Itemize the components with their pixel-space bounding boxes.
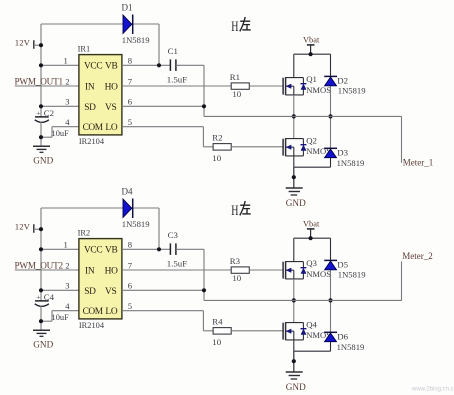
wire VS row: [122, 105, 204, 107]
svg-text:VCC: VCC: [84, 246, 102, 256]
svg-text:3: 3: [65, 281, 69, 291]
svg-text:D1: D1: [122, 3, 133, 13]
svg-text:4: 4: [65, 301, 70, 311]
svg-text:VS: VS: [105, 103, 116, 113]
svg-text:4: 4: [65, 117, 70, 127]
svg-text:1N5819: 1N5819: [122, 35, 150, 45]
svg-text:R2: R2: [212, 133, 222, 143]
svg-text:PWM_OUT1: PWM_OUT1: [15, 77, 64, 87]
svg-text:R4: R4: [212, 317, 223, 327]
transistor Q2 NMOS: [283, 135, 331, 156]
node Vbat junction: [309, 52, 313, 56]
wire VB rail drop: [158, 24, 160, 65]
svg-text:Meter_2: Meter_2: [402, 251, 433, 261]
capacitor C3 1.5uF: [167, 230, 187, 269]
resistor R3 10: [230, 256, 250, 283]
wire source bottom bar: [294, 167, 331, 188]
svg-text:6: 6: [128, 97, 133, 107]
wire LO row: [122, 311, 213, 331]
wire diode D6 branch: [330, 300, 332, 351]
wire cap to ground: [40, 306, 42, 331]
net label Meter_2: [402, 251, 433, 261]
ground GND bridge: [286, 372, 306, 392]
pin 6: [128, 281, 133, 291]
wire VB row: [122, 248, 170, 250]
wire HO row: [122, 85, 231, 87]
diode D4 1N5819: [122, 187, 150, 230]
svg-text:IR2104: IR2104: [79, 321, 105, 330]
wire Q1 drain: [293, 54, 295, 77]
wire top rail to diode D4: [41, 208, 159, 229]
pin 4: [65, 117, 70, 127]
svg-text:Q2: Q2: [306, 135, 317, 145]
wire Q3 source: [293, 279, 295, 301]
text H-left title: [231, 201, 251, 219]
node Vbat junction: [309, 236, 313, 240]
net label Meter_1: [403, 158, 434, 168]
node COM/cap junction: [39, 319, 43, 323]
svg-text:GND: GND: [286, 198, 306, 208]
svg-text:12V: 12V: [15, 222, 31, 232]
svg-text:2: 2: [65, 260, 69, 270]
pin 1: [64, 56, 68, 66]
wire diode D2 branch: [330, 54, 332, 116]
svg-text:LO: LO: [105, 307, 117, 317]
wire Q4 drain: [293, 300, 295, 322]
pin 1: [64, 240, 68, 250]
svg-text:IR2: IR2: [78, 228, 91, 237]
node 12V stub junction: [39, 227, 43, 231]
svg-text:10: 10: [232, 89, 241, 99]
svg-text:D2: D2: [337, 76, 348, 86]
pin 5: [128, 301, 132, 311]
net label PWM_OUT2: [15, 261, 64, 271]
svg-text:12V: 12V: [15, 38, 31, 48]
wire 12V rail vertical: [40, 45, 42, 116]
svg-text:PWM_OUT2: PWM_OUT2: [15, 261, 64, 271]
svg-text:COM: COM: [83, 123, 104, 133]
net label PWM_OUT1: [15, 77, 64, 87]
wire source bottom bar: [294, 351, 331, 372]
ground GND left: [33, 330, 54, 349]
wire VCC row: [41, 64, 79, 66]
svg-text:GND: GND: [286, 382, 306, 392]
svg-text:VB: VB: [105, 246, 117, 256]
svg-text:Q1: Q1: [306, 74, 317, 84]
svg-text:2: 2: [65, 76, 69, 86]
node VB/diode junction: [157, 63, 161, 67]
capacitor C4 10uF polarized: [35, 292, 69, 322]
pin 7: [128, 76, 133, 86]
ground GND bridge: [286, 188, 306, 208]
wire LO row: [122, 127, 213, 147]
wire HO to gate: [249, 269, 283, 271]
node VCC junction: [39, 247, 43, 251]
wire cap to ground: [40, 122, 42, 147]
node ground junction: [292, 175, 296, 179]
power port Vbat: [303, 35, 320, 54]
svg-text:6: 6: [128, 281, 133, 291]
wire SD row: [41, 105, 79, 107]
node half-bridge midpoint left: [292, 298, 296, 302]
svg-text:H: H: [231, 203, 238, 219]
wire diode D3 branch: [330, 116, 332, 167]
svg-text:D4: D4: [122, 187, 133, 197]
svg-text:+: +: [36, 109, 40, 118]
wire Q3 drain: [293, 238, 295, 261]
IC IR1 IR2104: [78, 44, 122, 146]
pin 3: [65, 281, 69, 291]
pin 8: [128, 240, 132, 250]
svg-text:1N5819: 1N5819: [337, 158, 365, 168]
svg-text:VS: VS: [105, 287, 116, 297]
wire Q2 drain: [293, 116, 295, 138]
wire IN row: [15, 269, 79, 271]
diode D3 1N5819: [324, 148, 364, 168]
svg-text:IR2104: IR2104: [79, 137, 105, 146]
ground GND left: [33, 146, 54, 165]
wire Vbat rail: [294, 237, 331, 239]
svg-text:VCC: VCC: [84, 62, 102, 72]
diode D2 1N5819: [324, 76, 365, 96]
svg-text:10: 10: [212, 337, 221, 347]
svg-text:8: 8: [128, 56, 132, 66]
wire Vbat rail: [294, 53, 331, 55]
svg-text:HO: HO: [105, 82, 118, 92]
svg-text:5: 5: [128, 117, 132, 127]
watermark: [411, 387, 454, 393]
svg-text:5: 5: [128, 301, 132, 311]
svg-text:NMOS: NMOS: [306, 269, 331, 279]
wire midpoint to Meter_1: [204, 116, 402, 162]
wire top rail to diode D1: [41, 24, 159, 45]
svg-text:10uF: 10uF: [52, 129, 70, 138]
node half-bridge midpoint right: [328, 114, 332, 118]
node SD junction: [39, 104, 43, 108]
capacitor C2 10uF polarized: [35, 108, 69, 138]
transistor Q1 NMOS: [283, 74, 331, 95]
power port Vbat: [303, 219, 320, 238]
wire VB row: [122, 64, 170, 66]
transistor Q3 NMOS: [283, 258, 331, 279]
wire SD row: [41, 289, 79, 291]
svg-text:R1: R1: [230, 72, 240, 82]
svg-text:VB: VB: [105, 62, 117, 72]
svg-text:1N5819: 1N5819: [122, 219, 150, 229]
svg-text:Meter_1: Meter_1: [403, 158, 434, 168]
pin 5: [128, 117, 132, 127]
wire LO to gate: [231, 330, 283, 332]
svg-text:www.2blog.cn.cc: www.2blog.cn.cc: [411, 387, 454, 393]
svg-text:10: 10: [232, 273, 241, 283]
wire VCC row: [41, 248, 79, 250]
wire HO row: [122, 269, 231, 271]
svg-text:10: 10: [212, 153, 221, 163]
node half-bridge midpoint left: [292, 114, 296, 118]
wire COM row: [41, 311, 79, 322]
svg-text:1.5uF: 1.5uF: [167, 259, 187, 269]
svg-text:8: 8: [128, 240, 132, 250]
transistor Q4 NMOS: [283, 319, 331, 340]
svg-text:1: 1: [64, 56, 68, 66]
node half-bridge midpoint right: [328, 298, 332, 302]
wire VB rail drop: [158, 208, 160, 249]
pin 2: [65, 260, 69, 270]
wire cap to VS corner: [176, 65, 204, 116]
svg-text:IN: IN: [85, 82, 95, 92]
node VS junction: [202, 288, 206, 292]
wire LO to gate: [231, 146, 283, 148]
svg-text:IR1: IR1: [78, 44, 91, 53]
pin 7: [128, 260, 133, 270]
svg-text:H: H: [231, 19, 238, 35]
pin 6: [128, 97, 133, 107]
resistor R1 10: [230, 72, 250, 99]
pin 4: [65, 301, 70, 311]
wire HO to gate: [249, 85, 283, 87]
svg-text:Q3: Q3: [306, 258, 317, 268]
node COM/cap junction: [39, 135, 43, 139]
svg-text:Vbat: Vbat: [303, 219, 320, 228]
wire diode D5 branch: [330, 238, 332, 300]
pin 8: [128, 56, 132, 66]
svg-text:10uF: 10uF: [52, 313, 70, 322]
power port 12V: [15, 222, 41, 233]
wire Q2 source: [293, 156, 295, 167]
pin 3: [65, 97, 69, 107]
svg-text:3: 3: [65, 97, 69, 107]
svg-text:Q4: Q4: [306, 319, 317, 329]
svg-text:COM: COM: [83, 307, 104, 317]
node VCC junction: [39, 63, 43, 67]
svg-text:SD: SD: [84, 103, 96, 113]
wire Q1 source: [293, 95, 295, 117]
svg-text:1: 1: [64, 240, 68, 250]
node ground junction: [292, 359, 296, 363]
diode D5 1N5819: [324, 260, 365, 280]
pin 2: [65, 76, 69, 86]
diode D1 1N5819: [122, 3, 150, 46]
svg-text:1N5819: 1N5819: [337, 342, 365, 352]
capacitor C1 1.5uF: [167, 46, 187, 85]
svg-text:IN: IN: [85, 266, 95, 276]
node 12V stub junction: [39, 43, 43, 47]
diode D6 1N5819: [324, 332, 364, 352]
wire VS row: [122, 289, 204, 291]
resistor R4 10: [212, 317, 231, 347]
svg-text:C3: C3: [168, 230, 179, 240]
wire midpoint to Meter_2: [204, 261, 402, 300]
svg-text:C2: C2: [44, 108, 54, 118]
svg-text:C4: C4: [44, 292, 55, 302]
svg-text:D6: D6: [337, 332, 348, 342]
wire IN row: [15, 85, 79, 87]
power port 12V: [15, 38, 41, 49]
node VB/diode junction: [157, 247, 161, 251]
svg-text:D5: D5: [337, 260, 348, 270]
svg-text:1N5819: 1N5819: [338, 270, 366, 280]
svg-text:C1: C1: [168, 46, 178, 56]
svg-text:NMOS: NMOS: [306, 85, 331, 95]
text H-left title: [231, 17, 251, 35]
wire 12V rail vertical: [40, 229, 42, 300]
svg-text:1N5819: 1N5819: [338, 86, 366, 96]
svg-text:SD: SD: [84, 287, 96, 297]
svg-text:GND: GND: [33, 156, 53, 166]
resistor R2 10: [212, 133, 231, 163]
node SD junction: [39, 288, 43, 292]
svg-text:7: 7: [128, 76, 133, 86]
svg-text:7: 7: [128, 260, 133, 270]
svg-text:R3: R3: [230, 256, 241, 266]
svg-text:Vbat: Vbat: [303, 35, 320, 44]
wire Q4 source: [293, 340, 295, 351]
svg-text:HO: HO: [105, 266, 118, 276]
svg-text:1.5uF: 1.5uF: [167, 75, 187, 85]
wire COM row: [41, 127, 79, 138]
svg-text:GND: GND: [33, 340, 53, 350]
svg-text:D3: D3: [337, 148, 348, 158]
svg-text:LO: LO: [105, 123, 117, 133]
svg-text:+: +: [36, 293, 40, 302]
IC IR2 IR2104: [78, 228, 122, 330]
wire cap to VS corner: [176, 249, 204, 300]
node VS junction: [202, 104, 206, 108]
